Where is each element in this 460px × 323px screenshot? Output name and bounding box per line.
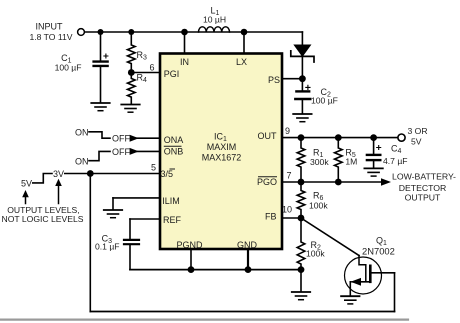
wire IN pin drop <box>184 32 186 54</box>
svg-text:ON: ON <box>75 156 89 166</box>
node R3/R4/PGI <box>128 69 135 76</box>
svg-text:PGI: PGI <box>164 69 180 79</box>
svg-text:NOT LOGIC LEVELS: NOT LOGIC LEVELS <box>2 214 84 224</box>
wire ILIM <box>113 197 160 199</box>
svg-text:5V: 5V <box>21 179 32 189</box>
svg-text:3 OR: 3 OR <box>408 126 428 136</box>
svg-text:3/5: 3/5 <box>161 169 174 179</box>
svg-text:0.1 µF: 0.1 µF <box>95 242 120 252</box>
overline PGO <box>258 176 277 178</box>
ground (R4) <box>121 105 139 113</box>
wire bottom rail <box>90 311 394 313</box>
resistor R2 <box>297 218 305 292</box>
svg-text:3V: 3V <box>53 169 64 179</box>
output terminal 3 or 5V <box>398 134 405 141</box>
svg-text:PGND: PGND <box>177 240 204 250</box>
wire ground rail (PGND/GND) <box>130 269 301 271</box>
wire GND drop <box>247 249 249 270</box>
svg-text:INPUT: INPUT <box>36 22 64 32</box>
artifact gray line bottom <box>0 319 408 321</box>
svg-text:IN: IN <box>180 57 189 67</box>
svg-text:MAX1672: MAX1672 <box>202 152 242 162</box>
node PGO/R5 <box>335 179 342 186</box>
wire ONB <box>136 150 160 152</box>
svg-text:ON: ON <box>75 128 89 138</box>
arrowhead PGO output <box>381 178 391 186</box>
switch S1 ON/OFF <box>89 132 110 138</box>
node FB <box>298 215 305 222</box>
svg-text:LX: LX <box>236 57 247 67</box>
node C1 top <box>98 29 104 35</box>
wire ONA <box>136 137 160 139</box>
svg-text:PGO: PGO <box>257 177 277 187</box>
wire PGI <box>131 72 160 74</box>
node 3V junction <box>87 170 94 177</box>
diode D1 schottky <box>291 32 314 90</box>
wire PGND drop <box>190 249 192 270</box>
capacitor C3 <box>124 219 139 270</box>
arrow pointing up at 3V <box>55 179 62 204</box>
svg-text:100k: 100k <box>306 249 325 259</box>
svg-text:5V: 5V <box>411 137 422 147</box>
svg-text:FB: FB <box>265 212 277 222</box>
wire OUT <box>282 137 398 139</box>
ground (C4) <box>364 168 382 176</box>
svg-text:1.8 TO 11V: 1.8 TO 11V <box>30 32 73 42</box>
svg-text:100 µF: 100 µF <box>55 63 82 73</box>
wire REF <box>130 218 160 220</box>
wire FB <box>282 217 301 219</box>
resistor R3 <box>128 32 136 73</box>
node OUT/R1 <box>298 134 305 141</box>
ground (C2) <box>293 114 311 122</box>
resistor R6 <box>297 182 305 218</box>
wire PGO low-battery <box>282 181 382 183</box>
svg-text:ONB: ONB <box>164 146 184 156</box>
wire top input rail <box>85 31 303 33</box>
ground (ILIM) <box>104 198 122 218</box>
node GND <box>245 266 252 273</box>
resistor R5 <box>334 138 342 182</box>
transistor Q1 2N7002 <box>345 256 395 296</box>
wire 3V node down to bottom rail <box>89 174 91 312</box>
overline on 5 of 3/5 <box>170 168 176 170</box>
svg-text:2N7002: 2N7002 <box>362 246 395 257</box>
svg-text:4.7 µF: 4.7 µF <box>383 156 408 166</box>
svg-text:OFF: OFF <box>112 134 130 144</box>
svg-text:7: 7 <box>286 170 291 180</box>
svg-text:REF: REF <box>163 215 182 225</box>
svg-text:R3: R3 <box>137 50 148 62</box>
svg-text:100 µF: 100 µF <box>311 96 338 106</box>
node LX drop <box>241 29 248 36</box>
wire 5V step <box>33 174 52 183</box>
arrowhead ONA <box>130 135 139 142</box>
ground (C1) <box>91 103 109 111</box>
arrow pointing up at 5V <box>22 190 29 204</box>
svg-text:GND: GND <box>237 240 258 250</box>
svg-text:PS: PS <box>268 75 280 85</box>
wire FB to Q1 gate diagonal <box>301 218 359 256</box>
ground (Q1 source) <box>341 296 359 304</box>
svg-text:5: 5 <box>151 163 156 173</box>
node R2/ground rail <box>298 266 305 273</box>
wire 3/5 select <box>65 173 160 175</box>
node R3 top <box>128 29 134 35</box>
node PGO/R1 <box>298 179 305 186</box>
resistor R4 <box>128 73 136 105</box>
svg-text:OUTPUT: OUTPUT <box>405 192 441 202</box>
svg-text:1M: 1M <box>345 156 357 166</box>
node OUT/R5 <box>335 134 342 141</box>
svg-text:OUT: OUT <box>258 131 278 141</box>
node OUT/C4 <box>370 134 377 141</box>
svg-text:R4: R4 <box>137 72 148 84</box>
svg-text:LOW-BATTERY-: LOW-BATTERY- <box>392 172 456 182</box>
arrowhead ONB <box>130 148 139 155</box>
wire Q1 drain drop <box>394 273 396 312</box>
node PGND <box>188 266 195 273</box>
IC U1 MAX1672 body <box>160 54 282 250</box>
svg-text:ONA: ONA <box>164 135 184 145</box>
svg-text:MAXIM: MAXIM <box>207 142 237 152</box>
overline ONB <box>164 145 182 147</box>
svg-text:OFF: OFF <box>112 147 130 157</box>
svg-text:6: 6 <box>149 62 154 72</box>
capacitor C2 <box>295 85 310 113</box>
switch S2 ON/OFF <box>89 151 110 160</box>
svg-text:9: 9 <box>285 126 290 136</box>
svg-text:10 µH: 10 µH <box>203 14 226 24</box>
svg-text:300k: 300k <box>310 157 329 167</box>
wire PS <box>282 78 302 80</box>
input terminal <box>78 29 85 36</box>
node diode/PS/C2 <box>299 75 306 82</box>
svg-text:C4: C4 <box>391 144 402 156</box>
resistor R1 <box>297 138 305 182</box>
svg-text:ILIM: ILIM <box>162 196 180 206</box>
wire LX pin drop <box>243 32 245 54</box>
ground (R2) <box>292 292 310 300</box>
capacitor C4 <box>367 138 381 168</box>
svg-text:10: 10 <box>282 205 292 215</box>
svg-text:100k: 100k <box>309 201 328 211</box>
capacitor C1 <box>94 32 108 103</box>
node IN drop <box>181 29 188 36</box>
inductor L1 <box>199 27 230 32</box>
